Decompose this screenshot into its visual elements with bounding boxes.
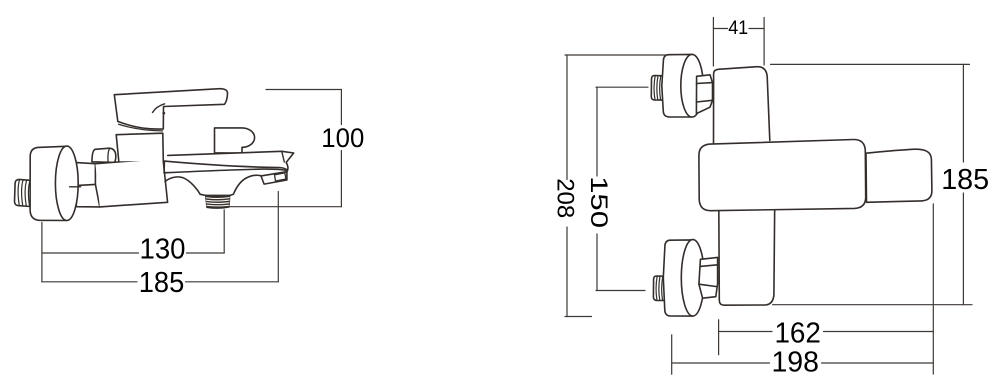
dim 150 extension top [596,86,648,88]
svg-text:198: 198 [771,347,819,379]
right view: bottom flange disc [663,240,704,317]
dim 150 extension bottom [596,290,645,292]
dim text 150 rotated [585,176,612,228]
dim text 100 [321,123,364,153]
left view: spout bowl [165,175,261,195]
left view: wall flange disc [30,146,81,220]
svg-text:41: 41 [728,18,748,39]
left view: diverter housing [215,128,255,153]
dim 185 line [42,281,278,283]
dim text 185 right [941,164,989,196]
left view: spout underside seam [164,161,286,173]
dim 208 extension top [565,54,667,56]
right view: top pipe thread [651,76,663,101]
right view: main body [699,139,866,210]
svg-text:100: 100 [321,123,364,153]
dim 162 left extension [718,320,720,355]
left view: hex nut [76,163,100,207]
left view: aerator [206,195,230,208]
left view: handle neck [118,121,163,130]
right view: bottom connector [719,205,775,305]
left view: wall pipe thread [15,179,31,206]
dim 162 line [719,331,934,333]
dim 41 extensions [712,18,714,67]
left view: check valve cap [92,148,116,162]
dim text 185 left [139,267,185,299]
dim 208 extension bottom [565,316,592,318]
dim 100 extension bottom [227,206,341,208]
right view: top flange disc [662,54,703,117]
dim text 130 [140,234,186,266]
dim 198 left extension [671,335,673,374]
dim 185 right extension [277,192,279,282]
dim 130 extension [223,210,225,253]
dim 150 line [596,87,598,290]
svg-text:162: 162 [774,318,821,350]
right view: handle [866,149,932,202]
dim 185 right extension bottom [773,304,972,306]
left view: cartridge block [116,133,163,161]
right view: top connector [714,67,770,144]
dim 100 extension top [266,89,341,91]
svg-text:208: 208 [552,178,579,218]
dim 185 right extension top [771,63,970,65]
dim text 162 [774,318,821,350]
dim 100 line [340,90,342,207]
svg-text:185: 185 [941,164,989,196]
svg-text:130: 130 [140,234,186,266]
left view: lever handle [114,89,227,129]
dim text 41 [728,18,748,39]
left view: diverter nub [261,162,288,184]
svg-text:185: 185 [139,267,185,299]
dimension lines [42,90,342,282]
dim 185 right line [962,64,964,304]
left view: spout top plate [164,151,294,170]
dim 41 line [713,28,764,30]
right view: top hex nut [696,75,712,114]
dim 130 line [42,252,224,254]
right view: bottom hex nut [699,257,718,298]
handle right extension [932,204,934,374]
dim 185 left extension [41,222,43,281]
left view: body block [95,159,167,207]
right dimension lines [565,18,972,375]
dim 198 line [672,362,934,364]
dim text 198 [771,347,819,379]
dim 208 line [566,55,568,317]
dim text 208 rotated [552,178,579,218]
right view: bottom pipe thread [653,276,664,301]
svg-text:150: 150 [585,176,612,228]
